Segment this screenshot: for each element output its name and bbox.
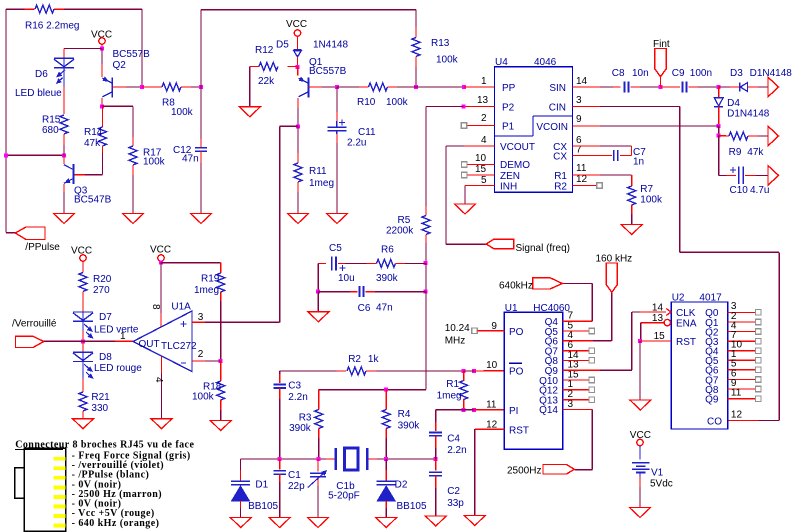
svg-text:LED verte: LED verte (94, 325, 139, 336)
svg-text:V1: V1 (651, 468, 664, 479)
pin U4 P1 unconnected (467, 125, 495, 127)
svg-text:160 kHz: 160 kHz (596, 254, 633, 265)
pin U4 ZEN unconnected (467, 174, 495, 176)
pin U1 PO crystal input (472, 328, 478, 334)
ground C2 (425, 516, 446, 526)
svg-text:4.7u: 4.7u (750, 185, 769, 196)
ground R18 (210, 421, 231, 431)
svg-text:R3: R3 (299, 413, 312, 424)
resistor R4 (385, 390, 387, 410)
svg-text:CIN: CIN (549, 103, 566, 114)
svg-text:100k: 100k (143, 157, 166, 168)
svg-text:47k: 47k (747, 147, 764, 158)
wire Q3 emitter (63, 184, 65, 192)
svg-text:11: 11 (486, 400, 497, 411)
wire D5 to Q1 (297, 57, 299, 67)
svg-text:R21: R21 (91, 392, 110, 403)
LED D8 (82, 341, 84, 352)
svg-text:13: 13 (477, 95, 489, 106)
svg-text:4: 4 (153, 377, 164, 383)
svg-text:C3: C3 (288, 380, 301, 391)
resistor R2 (337, 370, 347, 372)
svg-text:VCC: VCC (150, 245, 171, 256)
wire Q1 collector to op-amp + input (280, 125, 298, 127)
svg-text:D7: D7 (99, 312, 112, 323)
svg-text:R6: R6 (381, 245, 394, 256)
wire R12 to ground (249, 67, 251, 107)
op-amp U1A (133, 311, 192, 372)
resistor R1 (463, 371, 465, 381)
ground C1 (269, 518, 290, 528)
pin U1 Q10 unconnected (563, 379, 589, 381)
pin U1 Q5 unconnected (563, 330, 589, 332)
resistor R18 (220, 361, 222, 381)
ground R17 (123, 214, 144, 224)
svg-text:C9: C9 (672, 68, 685, 79)
wire U1 Q6 to 160kHz flag (563, 340, 593, 342)
pin U4 DEMO unconnected (467, 164, 495, 166)
svg-text:1: 1 (120, 331, 126, 342)
svg-text:VCC: VCC (286, 19, 307, 30)
crystal X1 (335, 448, 338, 470)
svg-text:2.2u: 2.2u (347, 138, 366, 149)
svg-text:C6: C6 (358, 303, 371, 314)
pin op-amp - (192, 360, 205, 362)
transistor Q2 (101, 49, 103, 65)
wire Q2 base (112, 86, 126, 88)
capacitor C4 (435, 410, 437, 422)
ground U1 RST (464, 516, 485, 526)
port 160kHz flag (606, 263, 617, 292)
capacitor C1 (279, 459, 281, 470)
wire C6 row (317, 263, 319, 291)
wire VCC to D6 (64, 48, 102, 50)
svg-text:D8: D8 (99, 352, 112, 363)
svg-text:47n: 47n (182, 154, 199, 165)
svg-text:15: 15 (475, 164, 487, 175)
svg-text:MHz: MHz (445, 336, 466, 347)
svg-text:8: 8 (150, 304, 161, 310)
wire U1 Q9 to U2 CLK (563, 369, 600, 371)
resistor R5 (425, 206, 427, 216)
svg-text:LED bleue: LED bleue (15, 88, 62, 99)
svg-text:1k: 1k (368, 354, 380, 365)
svg-text:390k: 390k (376, 273, 399, 284)
ground V1 (630, 508, 651, 518)
svg-text:390k: 390k (398, 421, 421, 432)
svg-text:3: 3 (198, 312, 204, 323)
ground R7 (621, 225, 642, 235)
svg-text:14: 14 (652, 303, 664, 314)
svg-text:R11: R11 (309, 166, 327, 177)
svg-text:VCOUT: VCOUT (500, 142, 535, 153)
LED D6 (54, 57, 74, 59)
wire top-right net (201, 9, 416, 11)
transistor Q1 (297, 67, 299, 75)
svg-text:2.2n: 2.2n (447, 445, 466, 456)
capacitor C5 (331, 256, 333, 270)
svg-text:P1: P1 (502, 122, 515, 133)
pins U2 outputs unconnected (728, 311, 756, 313)
pin op-amp + (192, 321, 205, 323)
LED D7 (73, 311, 93, 313)
pin U1 Q13 unconnected (563, 399, 589, 401)
resistor R16 (25, 8, 35, 10)
transistor Q3 (74, 174, 85, 176)
svg-text:C4: C4 (447, 433, 460, 444)
capacitor C9 (661, 86, 681, 88)
svg-text:INH: INH (500, 182, 517, 193)
svg-text:TLC272: TLC272 (161, 341, 197, 352)
svg-text:2.2n: 2.2n (288, 392, 307, 403)
resistor R14 (102, 106, 104, 117)
svg-text:100k: 100k (192, 392, 215, 403)
svg-text:1meg: 1meg (309, 178, 334, 189)
wire Q2 collector node (101, 98, 103, 107)
svg-text:R19: R19 (201, 274, 220, 285)
capacitor C6 (359, 286, 361, 297)
pin U2 ENA bubble (664, 319, 670, 325)
diode D4 (718, 87, 720, 97)
svg-text:R15: R15 (42, 115, 61, 126)
svg-text:P2: P2 (502, 103, 515, 114)
wire PO-bar row (R2 net) (280, 370, 337, 372)
IC U2 4017 box (671, 302, 728, 429)
svg-text:330: 330 (91, 403, 108, 414)
capacitor C8 (624, 82, 626, 93)
wire U4 P2 net to R5 (464, 106, 495, 108)
svg-text:R14: R14 (84, 127, 103, 138)
resistor R12 (288, 66, 298, 68)
svg-text:CLK: CLK (676, 308, 696, 319)
wire OUT row (44, 340, 83, 342)
svg-text:HC4060: HC4060 (533, 303, 570, 314)
port /PPulse flag (15, 227, 45, 240)
svg-text:R16 2.2meg: R16 2.2meg (25, 21, 79, 32)
svg-text:270: 270 (93, 285, 110, 296)
svg-text:C11: C11 (358, 127, 376, 138)
svg-text:5: 5 (481, 175, 487, 186)
svg-text:Q14: Q14 (539, 405, 558, 416)
svg-text:4: 4 (481, 135, 487, 146)
capacitor C12 (200, 87, 202, 139)
svg-text:47k: 47k (84, 138, 101, 149)
wire U1 Q14 to 2500Hz flag (563, 408, 593, 410)
ground U2 ENA RST (630, 400, 651, 410)
resistor R8 (142, 86, 162, 88)
svg-text:100k: 100k (171, 107, 194, 118)
svg-text:1meg: 1meg (437, 390, 462, 401)
resistor R15 (60, 115, 68, 134)
svg-text:R13: R13 (431, 38, 450, 49)
wire PI row (462, 408, 466, 412)
capacitor C1b variable (317, 459, 319, 472)
svg-text:R5: R5 (398, 215, 411, 226)
resistor R6 (345, 262, 367, 264)
wire R5 node down (425, 263, 427, 292)
svg-text:1N4148: 1N4148 (313, 40, 348, 51)
svg-text:DEMO: DEMO (500, 160, 530, 171)
svg-text:/PPulse: /PPulse (25, 242, 60, 253)
svg-text:10.24: 10.24 (445, 323, 470, 334)
svg-text:100k: 100k (386, 97, 409, 108)
svg-text:3: 3 (568, 399, 574, 410)
ground C11 (327, 214, 348, 224)
wire inverting input node (205, 360, 221, 362)
resistor R19 (161, 262, 221, 264)
svg-text:13: 13 (652, 313, 664, 324)
wire Q1 base node (308, 86, 322, 88)
wire U4 VCOIN row (573, 125, 601, 127)
svg-text:10u: 10u (338, 273, 355, 284)
ground C5 C6 (308, 312, 329, 322)
svg-text:R7: R7 (640, 184, 653, 195)
svg-text:10n: 10n (632, 68, 649, 79)
wire op-amp V- to ground (160, 356, 162, 373)
resistor R7 (628, 186, 636, 205)
capacitor C7 (613, 150, 615, 161)
svg-text:Signal (freq): Signal (freq) (516, 243, 570, 254)
svg-text:OUT: OUT (139, 339, 160, 350)
resistor R9 (719, 135, 729, 137)
port output arrow R9 (768, 126, 779, 146)
wire Q1 collector (297, 98, 299, 108)
svg-text:BB105: BB105 (397, 501, 427, 512)
RJ45 connector drawing (24, 448, 66, 531)
svg-text:D4: D4 (727, 98, 740, 109)
svg-text:2: 2 (481, 113, 487, 124)
svg-text:2500Hz: 2500Hz (507, 466, 541, 477)
svg-text:U2: U2 (672, 293, 685, 304)
svg-text:C8: C8 (612, 68, 625, 79)
svg-text:4046: 4046 (534, 57, 557, 68)
wire U4 VCOUT to Signal flag (464, 145, 495, 147)
resistor R20 (79, 273, 87, 292)
svg-text:100k: 100k (640, 195, 663, 206)
svg-text:SIN: SIN (549, 83, 566, 94)
wire top-left net R16 row (6, 8, 25, 10)
svg-text:D6: D6 (35, 69, 48, 80)
diode D5 (294, 49, 302, 51)
svg-text:15: 15 (654, 331, 666, 342)
diode D1 varactor (240, 459, 242, 470)
svg-text:BB105: BB105 (248, 501, 278, 512)
diode D3 (719, 86, 730, 88)
svg-text:1meg: 1meg (194, 285, 219, 296)
svg-text:R20: R20 (93, 274, 112, 285)
ground R11 (288, 214, 309, 224)
svg-text:D1: D1 (255, 479, 268, 490)
svg-text:C2: C2 (447, 486, 460, 497)
wire U4 R1 pin to R7 (573, 174, 601, 176)
ground op-amp (151, 419, 172, 429)
svg-text:PP: PP (502, 83, 516, 94)
svg-text:U4: U4 (495, 57, 508, 68)
svg-text:4017: 4017 (699, 293, 722, 304)
port 640kHz flag (533, 278, 563, 289)
port output arrow C10 (768, 166, 779, 186)
pin U4 R2 unconnected (573, 185, 597, 187)
svg-text:LED rouge: LED rouge (94, 363, 142, 374)
battery V1 (632, 462, 650, 464)
ground Q3 (54, 214, 75, 224)
svg-text:9: 9 (576, 114, 582, 125)
wire Q3 collector (63, 155, 65, 164)
capacitor C3 (279, 371, 281, 374)
svg-text:D1N4148: D1N4148 (727, 109, 770, 120)
svg-text:100n: 100n (690, 68, 712, 79)
svg-text:D3: D3 (730, 68, 743, 79)
svg-text:CX: CX (553, 152, 567, 163)
svg-text:PO: PO (509, 367, 524, 378)
svg-text:R12: R12 (255, 45, 274, 56)
svg-text:U1A: U1A (171, 302, 191, 313)
svg-text:RST: RST (676, 337, 696, 348)
wire crystal row (241, 458, 327, 460)
svg-text:C1: C1 (288, 470, 301, 481)
svg-text:D2: D2 (395, 479, 408, 490)
svg-text:11: 11 (576, 163, 587, 174)
diode D2 varactor (385, 459, 387, 470)
wire C5 R6 loop (318, 262, 326, 264)
svg-text:VCC: VCC (91, 30, 112, 41)
svg-text:1n: 1n (633, 157, 644, 168)
svg-text:3: 3 (576, 95, 582, 106)
svg-text:- 640 kHz (orange): - 640 kHz (orange) (72, 518, 160, 529)
ground D1 (230, 518, 251, 528)
wire U1 Q4 to 640kHz flag (563, 320, 593, 322)
svg-text:Q9: Q9 (705, 394, 719, 405)
wire U4 CIN to U2 CO (573, 106, 601, 108)
svg-text:680: 680 (42, 125, 59, 136)
svg-text:R1: R1 (446, 379, 459, 390)
svg-text:CO: CO (707, 417, 722, 428)
svg-text:33p: 33p (447, 498, 464, 509)
port 2500Hz flag (543, 465, 574, 475)
svg-text:14: 14 (576, 76, 588, 87)
svg-text:640kHz: 640kHz (499, 281, 533, 292)
svg-text:47n: 47n (376, 303, 393, 314)
svg-text:ZEN: ZEN (500, 171, 520, 182)
svg-text:390k: 390k (289, 423, 312, 434)
resistor R21 (82, 371, 84, 379)
svg-text:Q2: Q2 (113, 60, 127, 71)
svg-text:ENA: ENA (676, 319, 697, 330)
ground C12 (191, 214, 212, 224)
resistor R10 (337, 86, 359, 88)
ground D2 (376, 518, 397, 528)
svg-text:R4: R4 (398, 409, 411, 420)
wire row87 to U4 PP (416, 86, 464, 88)
resistor R13 (415, 27, 417, 38)
svg-text:11: 11 (731, 387, 742, 398)
svg-text:22p: 22p (288, 481, 305, 492)
svg-text:RST: RST (509, 426, 529, 437)
wire ENA RST to ground (640, 323, 642, 341)
ground C1b (308, 518, 329, 528)
svg-text:BC547B: BC547B (74, 195, 112, 206)
wire C6 to ground (317, 292, 319, 312)
svg-text:R10: R10 (357, 97, 376, 108)
ground INH (455, 204, 476, 214)
svg-text:10: 10 (486, 360, 498, 371)
IC U1 HC4060 box (504, 312, 562, 449)
svg-text:PI: PI (509, 406, 518, 417)
svg-text:/Verrouillé: /Verrouillé (12, 319, 57, 330)
ground R12 (239, 107, 260, 117)
svg-text:R9: R9 (729, 147, 742, 158)
svg-text:5-20pF: 5-20pF (328, 490, 360, 501)
svg-text:12: 12 (731, 410, 743, 421)
capacitor C10 (718, 136, 720, 176)
svg-text:10: 10 (475, 153, 487, 164)
svg-text:R2: R2 (554, 182, 567, 193)
svg-text:R1: R1 (554, 171, 567, 182)
wire U4 CX-CX with C7 (573, 145, 601, 147)
resistor R11 (297, 126, 299, 153)
svg-text:100k: 100k (436, 55, 459, 66)
pin U1 Q12 unconnected (563, 389, 589, 391)
svg-text:2: 2 (198, 349, 204, 360)
node OUT row (82, 331, 84, 342)
svg-text:D5: D5 (276, 40, 289, 51)
svg-text:Fint: Fint (653, 39, 670, 50)
resistor R17 (129, 146, 137, 165)
port output arrow D3 (768, 77, 779, 97)
svg-text:R2: R2 (348, 354, 361, 365)
resistor R3 (318, 390, 320, 400)
svg-text:22k: 22k (258, 76, 275, 87)
wire U4 SIN row (573, 86, 601, 88)
pin U1 Q7 unconnected (563, 350, 589, 352)
svg-text:BC557B: BC557B (113, 49, 151, 60)
port Signal (freq) flag (486, 239, 514, 249)
IC U4 4046 box (495, 67, 573, 193)
svg-text:2200k: 2200k (386, 226, 414, 237)
capacitor C2 (435, 459, 437, 471)
svg-text:PO: PO (509, 327, 524, 338)
wire U1 RST to ground (475, 428, 505, 430)
wire node row155 (6, 154, 64, 156)
wire D6 to R15 (63, 77, 65, 87)
clock wedge U2 CLK (666, 309, 671, 316)
svg-text:1: 1 (481, 76, 487, 87)
port Fint flag (660, 77, 662, 87)
svg-text:VCOIN: VCOIN (536, 122, 568, 133)
ground R21 (73, 419, 94, 429)
capacitor C11 (336, 87, 338, 112)
svg-text:C10: C10 (730, 185, 749, 196)
pin U1 Q8 unconnected (563, 359, 589, 361)
svg-text:U1: U1 (505, 303, 518, 314)
svg-text:D1N4148: D1N4148 (750, 68, 792, 79)
svg-text:BC557B: BC557B (309, 66, 347, 77)
wire U4 INH to ground (465, 185, 495, 187)
svg-text:5Vdc: 5Vdc (650, 479, 673, 490)
svg-text:C5: C5 (329, 243, 342, 254)
